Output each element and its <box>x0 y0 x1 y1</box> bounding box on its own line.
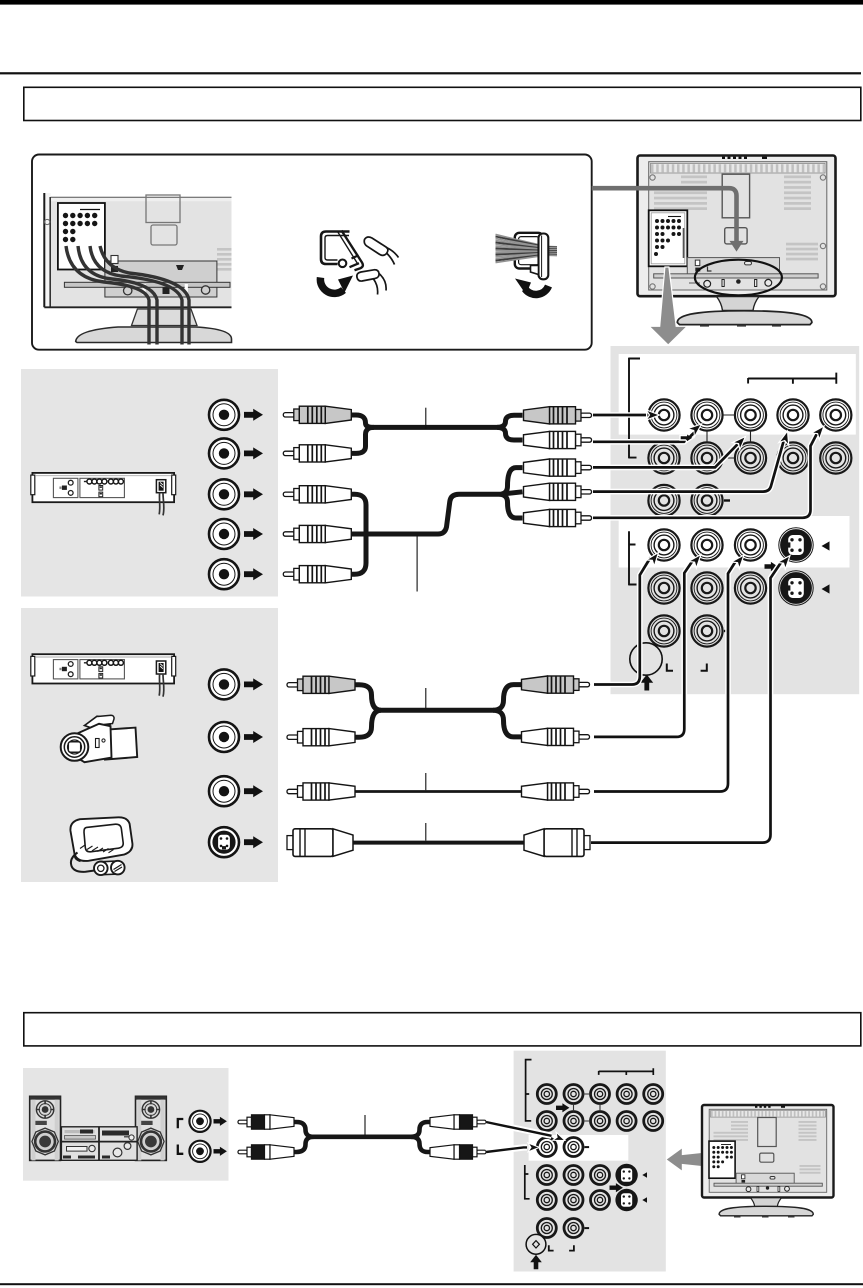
route 4 casing <box>591 561 782 843</box>
RCA output symbol 5 <box>209 559 239 589</box>
jack r2c4 <box>617 1112 636 1131</box>
jack row1 col3 <box>735 399 766 430</box>
jack row5 col3 <box>735 572 766 603</box>
jack row5 col2 <box>691 572 722 603</box>
audio connector L <box>189 1141 210 1162</box>
header box 1 <box>24 87 861 120</box>
route arrowhead 3 <box>731 552 748 569</box>
cable 1 trunk <box>351 415 523 427</box>
triangle marker row4 <box>822 541 830 550</box>
TV back view top right <box>638 156 836 327</box>
s-video jack r4 <box>615 1164 637 1186</box>
loop arrow <box>556 1103 569 1112</box>
S-video output symbol <box>209 827 239 857</box>
top rule line <box>0 72 861 74</box>
curved rotation arrow (clamp) <box>320 276 353 294</box>
jack row2 col1 <box>648 442 679 473</box>
cable line 3 <box>593 444 738 467</box>
clamp slots <box>143 284 146 295</box>
bracket lower <box>525 1165 530 1200</box>
corner mark right <box>569 1245 574 1250</box>
white box video group <box>619 516 850 568</box>
cable plug left 4 <box>283 525 351 542</box>
AV cable set 2 <box>287 676 590 856</box>
RCA output symbol p2-2 <box>209 722 239 752</box>
arrow p2-3 <box>244 785 263 797</box>
jack row3 col1 <box>648 485 679 516</box>
curved rotation arrow (bundle) <box>525 286 549 294</box>
jack r4c3 <box>591 1166 610 1185</box>
bottom TV stand bracket <box>736 1173 794 1184</box>
bottom TV jack panel <box>709 1141 735 1178</box>
TV centre rectangles <box>146 195 180 223</box>
jack row5 col1 <box>648 572 679 603</box>
line2 diagonal over <box>687 430 698 440</box>
triangle marker row5 <box>822 584 830 593</box>
jack dots grid <box>63 213 98 242</box>
device panel 1 background <box>21 369 278 597</box>
bracket top <box>526 1059 532 1122</box>
cable lines into panel <box>593 410 828 518</box>
RCA output symbol 3 <box>209 479 239 509</box>
loop-through arrow <box>680 433 693 442</box>
bottom TV base <box>719 1206 813 1216</box>
bottom jack panel <box>514 1051 666 1272</box>
route 2 casing <box>594 560 694 737</box>
stand plate details <box>745 262 752 265</box>
jack r4c1 <box>537 1166 556 1185</box>
swivel bar <box>64 282 230 287</box>
cable plug left 3 <box>283 486 351 503</box>
clamp frame behind <box>515 233 543 269</box>
pedestal <box>132 309 198 326</box>
cable B (video) <box>354 790 524 793</box>
white box component group <box>619 354 856 435</box>
clamp frame <box>321 232 350 265</box>
cable bundle illustration <box>496 233 558 295</box>
swivel bar <box>654 274 818 278</box>
jack r3c1 <box>537 1138 556 1157</box>
clamp flap <box>342 231 363 271</box>
arrow L <box>214 1147 227 1156</box>
RCA output symbol 4 <box>209 519 239 549</box>
R channel mark <box>178 1119 184 1128</box>
jack row1 col1 <box>648 399 679 430</box>
TV jack panel box <box>649 210 688 266</box>
cable A plugs <box>287 676 355 693</box>
jack r2c2 <box>564 1112 583 1131</box>
arrow 1 <box>244 409 263 421</box>
cable 2 label tick <box>416 535 418 592</box>
cable plug left 1 <box>283 406 351 423</box>
jack row2 col4 <box>777 442 808 473</box>
cable B label tick <box>425 773 427 790</box>
antenna circle <box>630 643 662 675</box>
jack r2c5 <box>644 1112 663 1131</box>
arrow R <box>214 1117 227 1126</box>
cable line 4 casing <box>593 442 784 492</box>
audio cable label tick <box>364 1115 366 1136</box>
stereo panel background <box>23 1068 229 1181</box>
stand base <box>76 327 232 343</box>
bracket top audio-video <box>748 373 836 384</box>
cable line 2 <box>593 430 697 442</box>
pedestal neck <box>717 297 760 311</box>
arrow p2-2 <box>244 731 263 743</box>
arrowhead line 5 <box>811 423 828 440</box>
s-video group arrow <box>765 562 778 571</box>
RCA output symbol 1 <box>209 400 239 430</box>
route 1 <box>594 558 651 685</box>
cable line 1 casing <box>593 412 646 418</box>
vent bars left <box>654 176 707 211</box>
panel background <box>611 346 860 694</box>
corner screws <box>650 175 826 289</box>
DVD recorder back view 1 <box>31 473 176 516</box>
stand bracket <box>105 261 217 297</box>
TV inner back panel <box>649 162 827 290</box>
jack row1 col4 <box>777 399 808 430</box>
s-video jack row5 <box>779 571 813 605</box>
black up arrow <box>640 675 653 691</box>
cable 1 label tick <box>425 408 427 429</box>
cable 2 trunk <box>351 494 367 574</box>
cable plug right 4 <box>524 483 592 500</box>
cable line 2 casing <box>593 430 697 442</box>
clamp bar <box>539 234 549 280</box>
RCA output symbol 2 <box>209 438 239 468</box>
corner mark left <box>549 1245 554 1250</box>
dash r6 <box>585 1227 590 1229</box>
bottom TV <box>702 1105 834 1218</box>
cable C (s-video) <box>351 841 525 845</box>
rear AV jack panel (detail) <box>611 346 860 694</box>
cable plug right 5 <box>524 509 592 526</box>
jack r1c3 <box>591 1085 610 1104</box>
RCA output symbol p2-1 <box>209 669 239 699</box>
cable fan <box>496 235 558 263</box>
jack row2 col5 <box>820 442 851 473</box>
cable A trunk <box>354 685 522 711</box>
device panel 2 background <box>21 608 278 882</box>
speaker grill band <box>651 163 826 173</box>
jack r5c2 <box>564 1191 583 1210</box>
arrowhead line 1 <box>646 410 660 420</box>
stand base <box>677 311 812 325</box>
arrow 5 <box>244 568 263 580</box>
arrowhead line 3 <box>732 433 749 450</box>
route 1 casing <box>594 558 651 685</box>
white box audio in <box>529 1135 629 1161</box>
line to R jack <box>486 1122 552 1136</box>
header box 2 <box>24 1013 861 1046</box>
cable plug right 3 <box>524 459 592 476</box>
centre mount rectangle <box>722 174 749 218</box>
arrow 3 <box>244 488 263 500</box>
audio cable lines to panel <box>486 1122 567 1152</box>
cable A label tick <box>425 688 427 708</box>
vent bars lower right <box>786 243 818 261</box>
gray cable-route line to TV <box>592 188 744 251</box>
jack r1c2 <box>564 1085 583 1104</box>
route arrowhead 4 <box>777 552 794 569</box>
jack r6c2 <box>564 1219 583 1238</box>
cables from jack panel <box>66 246 189 345</box>
s-video jack row4 <box>779 528 813 562</box>
triangle r5 <box>642 1197 647 1203</box>
route arrowhead 2 <box>688 551 705 568</box>
TV left bezel <box>44 193 51 307</box>
TV bottom edge <box>44 306 231 308</box>
arrow p2-4 <box>244 836 263 848</box>
camcorder <box>61 715 138 762</box>
corner mark right <box>701 664 707 671</box>
bracket left component <box>629 358 640 459</box>
audio cable trunk <box>292 1122 432 1137</box>
antenna circle <box>526 1234 546 1254</box>
jack r3c2 <box>564 1138 583 1157</box>
grey arrow down to panel <box>649 267 687 345</box>
cable line 4 <box>593 442 784 492</box>
centre units <box>61 1127 137 1161</box>
cable plug right 1 <box>524 407 592 424</box>
antenna diamond <box>533 1241 540 1248</box>
jack row4 col1 <box>648 529 679 560</box>
grey arrow from TV to panel <box>667 1149 702 1171</box>
jack r5c3 <box>591 1191 610 1210</box>
s-video jack r5 <box>615 1189 637 1211</box>
bottom TV pedestal <box>751 1198 782 1207</box>
upper finger <box>364 237 388 255</box>
dash r3 <box>585 1146 590 1148</box>
cable plug left 5 <box>283 566 351 583</box>
panel background <box>514 1051 666 1272</box>
s-video group arrow <box>610 1183 623 1192</box>
TV body panel <box>51 197 232 307</box>
left speaker <box>30 1096 61 1160</box>
lower finger <box>357 270 379 281</box>
audio connector R <box>189 1111 210 1132</box>
TV jack panel dots <box>654 219 681 256</box>
L channel mark <box>178 1145 184 1154</box>
cable plug left 2 <box>283 445 351 462</box>
jack row3 col2 <box>691 485 722 516</box>
jack row6 col2 <box>691 615 722 646</box>
line to L jack <box>486 1147 527 1152</box>
corner mark left <box>667 664 673 671</box>
route arrowhead 1 <box>646 549 663 566</box>
jack row6 col1 <box>648 615 679 646</box>
jack r5c1 <box>537 1191 556 1210</box>
black up arrow <box>530 1255 542 1270</box>
jack r2c1 <box>537 1112 556 1131</box>
stand bracket area <box>687 258 779 278</box>
jack r1c4 <box>617 1085 636 1104</box>
cable line 5 <box>593 433 818 518</box>
jack row1 col5 <box>820 399 851 430</box>
triangle r4 <box>642 1172 647 1178</box>
audio cable <box>238 1115 486 1159</box>
route 4 <box>591 561 782 843</box>
stereo system <box>30 1096 167 1160</box>
loop-through link square <box>707 415 751 458</box>
arrow p2-1 <box>244 678 263 690</box>
DVD/VCR back view 2 <box>31 654 176 697</box>
audio plugs <box>238 1115 294 1129</box>
TV outer bezel <box>638 156 836 297</box>
cable line 3 casing <box>593 444 738 467</box>
TV right vents <box>217 248 232 271</box>
jack r6c1 <box>537 1219 556 1238</box>
dash right of row3 col2 <box>724 499 730 501</box>
jack r2c3 <box>591 1112 610 1131</box>
right speaker <box>136 1096 167 1160</box>
cable C label tick <box>425 823 427 841</box>
vent bars right <box>784 176 811 211</box>
arrow 4 <box>244 528 263 540</box>
arrow 2 <box>244 447 263 459</box>
route 3 <box>594 560 737 792</box>
arrowhead R <box>553 1132 567 1144</box>
bracket left video <box>629 531 637 585</box>
TV jack panel white box <box>58 203 105 270</box>
small rectangle below <box>725 228 747 244</box>
stand ellipse highlight <box>695 260 782 296</box>
bottom rule line <box>0 1283 863 1285</box>
game console <box>70 817 132 875</box>
jack row4 col3 <box>735 529 766 560</box>
clamp and hand illustration <box>321 231 399 295</box>
top black bar <box>0 0 863 5</box>
TV back view inside instruction box <box>44 193 232 345</box>
dash right of row6 col2 <box>724 630 730 632</box>
jack r4c2 <box>564 1166 583 1185</box>
jack row2 col2 <box>691 442 722 473</box>
component cable set <box>283 406 591 591</box>
cable line 1 <box>593 414 646 417</box>
jack r1c1 <box>537 1085 556 1104</box>
jack row4 col2 <box>691 529 722 560</box>
route 2 <box>594 560 694 737</box>
RCA output symbol p2-3 <box>209 776 239 806</box>
cable plug right 2 <box>524 431 592 448</box>
vertical cable routes to panel <box>591 549 794 842</box>
loop link square <box>574 1094 601 1121</box>
jack row1 col2 <box>691 399 722 430</box>
rounded instruction box <box>32 155 592 350</box>
screws <box>124 287 132 295</box>
arrowhead line 2 <box>688 420 705 437</box>
cable line 5 casing <box>593 433 818 518</box>
bracket top horizontal <box>599 1068 654 1075</box>
route 3 casing <box>594 560 737 792</box>
arrowhead L <box>528 1143 539 1152</box>
arrowhead line 4 <box>779 430 793 446</box>
jack row2 col3 <box>735 442 766 473</box>
TV top black dashes <box>722 157 767 159</box>
jack r1c5 <box>644 1085 663 1104</box>
